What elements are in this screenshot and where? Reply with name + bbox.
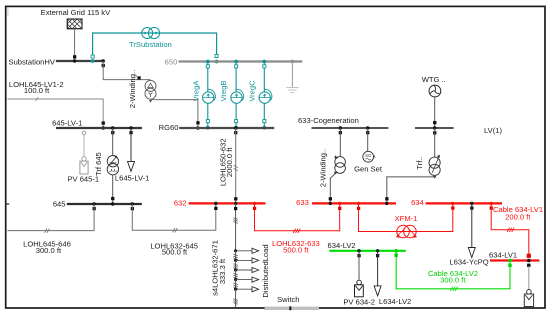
svg-text:633: 633 xyxy=(296,198,309,207)
Cable 634-LV1 label xyxy=(493,205,543,222)
svg-text:External Grid 115 kV: External Grid 115 kV xyxy=(41,8,111,17)
node XFM-1 on 633 xyxy=(357,202,360,210)
633-Cogeneration label xyxy=(298,116,359,125)
WTG label xyxy=(422,75,446,84)
svg-text:VregC: VregC xyxy=(248,80,257,102)
LOHL645-646 label xyxy=(23,239,71,255)
svg-text:633-Cogeneration: 633-Cogeneration xyxy=(298,116,359,125)
node LOHL632-645 on 645 xyxy=(131,202,134,210)
svg-text:XFM-1: XFM-1 xyxy=(395,214,418,223)
node Trf on 633 xyxy=(385,202,388,205)
bus 650 xyxy=(179,60,303,62)
svg-text:500.0 ft: 500.0 ft xyxy=(283,246,309,255)
svg-text:634: 634 xyxy=(411,198,424,207)
breaker square Cable 634-LV2 at 634-LV2 xyxy=(395,254,398,257)
svg-text:634-LV1: 634-LV1 xyxy=(489,251,517,260)
node LOHL645-LV1-2 on 645-LV-1 xyxy=(102,126,105,129)
svg-text:DistributedLoad: DistributedLoad xyxy=(261,244,270,297)
hash mark LOHL650-632 xyxy=(234,165,238,170)
node PV on 634-LV1 xyxy=(527,259,531,267)
node 2-Winding on 633 xyxy=(329,202,332,205)
wire PV 645-1 xyxy=(83,135,85,157)
line s4LOHL632-671 bottom xyxy=(233,289,237,307)
hash mark s4LOHL632-671 top xyxy=(233,218,237,223)
cable 634-LV2 (green) xyxy=(396,251,510,289)
svg-text:TrSubstation: TrSubstation xyxy=(129,40,172,49)
svg-text:RG60: RG60 xyxy=(159,123,179,132)
s4LOHL632-671 label xyxy=(211,240,227,296)
node 2-Winding on 633-Cogeneration xyxy=(339,126,342,134)
632 label xyxy=(174,199,187,208)
bus SubstationHV xyxy=(56,60,105,62)
svg-text:L645-LV-1: L645-LV-1 xyxy=(115,173,149,182)
distributed load tap 3 xyxy=(234,267,259,272)
svg-text:634-LV2: 634-LV2 xyxy=(328,241,356,250)
line LOHL645-LV1-2 xyxy=(8,99,104,128)
svg-text:650: 650 xyxy=(165,58,178,67)
633 label xyxy=(296,198,309,207)
border stub at 645 row xyxy=(6,203,9,205)
breaker square LOHL632-645 at 632 xyxy=(214,207,217,210)
svg-text:Gen Set: Gen Set xyxy=(354,165,383,174)
node 2-Winding on RG60 xyxy=(196,126,199,129)
node LOHL632-633 on 633 xyxy=(338,202,341,205)
PV 645-1 symbol xyxy=(80,157,88,174)
node external grid on bus xyxy=(73,59,76,62)
cable 634-LV1 (red) xyxy=(491,203,529,256)
svg-text:VregA: VregA xyxy=(192,80,201,102)
bus 634 xyxy=(426,202,502,204)
svg-text:2-Winding..: 2-Winding.. xyxy=(128,70,137,108)
breaker square LOHL650-632 at 632 xyxy=(234,197,237,200)
external grid symbol xyxy=(48,19,92,29)
wire 2-Winding 633 lower xyxy=(330,174,335,204)
Trf label xyxy=(415,156,424,169)
distributed load tap 5 xyxy=(234,287,259,292)
node Cable 634-LV1 on 634 xyxy=(490,202,493,210)
bus 633-Cogeneration xyxy=(312,127,389,129)
svg-text:300.0 ft: 300.0 ft xyxy=(36,246,62,255)
wind turbine generator WTG xyxy=(429,85,441,97)
line s4LOHL632-671 section 4 xyxy=(233,270,237,280)
transformer Trf 645 xyxy=(107,156,118,175)
hash mark LOHL632-633 xyxy=(293,229,300,233)
breaker square 2-Winding LV xyxy=(196,121,199,124)
load L634-LV2 xyxy=(374,251,381,296)
hash mark Cable 634-LV2 xyxy=(451,287,458,291)
wire 2-Winding transformer to RG60 xyxy=(151,99,198,128)
ground xyxy=(286,62,299,93)
DistributedLoad label xyxy=(261,244,270,297)
bus 645 xyxy=(67,203,142,205)
node XFM-1 on 634 xyxy=(451,202,454,205)
wire Trf lower to 633 xyxy=(387,176,435,204)
wire TrSubstation (teal) xyxy=(93,33,217,55)
wire Trf 645 lower xyxy=(112,175,114,204)
2-Winding substation label xyxy=(128,70,137,108)
wire Trf 645 upper xyxy=(112,128,114,156)
node LOHL632-645 on 632 xyxy=(214,202,217,205)
bus RG60 xyxy=(179,127,274,129)
line LOHL632-645 xyxy=(132,203,216,230)
line s4LOHL632-671 section 5 xyxy=(233,280,237,290)
wire PV 634-2 xyxy=(358,251,360,280)
L634-LV2 label xyxy=(379,297,411,306)
distributed load tap 1 xyxy=(234,248,259,253)
hash mark LOHL645-LV1-2 xyxy=(36,97,38,101)
breaker square on external grid wire xyxy=(73,55,76,58)
load L634-YcPQ xyxy=(468,203,475,257)
external grid label xyxy=(41,8,111,17)
650 label xyxy=(165,58,178,67)
node L645-LV-1 on 645-LV-1 xyxy=(129,126,132,134)
node LOHL650-632 on 632 xyxy=(234,202,237,205)
svg-text:SG: SG xyxy=(365,153,371,158)
RG60 label xyxy=(159,123,179,132)
634-LV2 label xyxy=(328,241,356,250)
VregA label xyxy=(192,80,201,102)
ground node on 650 xyxy=(291,60,294,63)
L645-LV-1 label xyxy=(115,173,149,182)
breaker square on 2-Winding wire xyxy=(137,76,140,79)
distributed load tap 4 xyxy=(234,277,259,282)
transformer 2-Winding (633) xyxy=(334,155,345,174)
open switch square TrSubstation HV xyxy=(91,55,94,58)
svg-text:300.0 ft: 300.0 ft xyxy=(440,276,466,285)
svg-text:VregB: VregB xyxy=(219,81,228,102)
node Trf 645 on 645-LV-1 xyxy=(111,126,114,134)
hash mark LOHL632-645 xyxy=(173,228,178,232)
634-LV1 label xyxy=(489,251,517,260)
LOHL632-645 label xyxy=(150,241,198,256)
svg-text:SubstationHV: SubstationHV xyxy=(9,57,56,66)
breaker square Cable 634-LV1 at 634-LV1 xyxy=(527,254,531,258)
svg-text:632: 632 xyxy=(174,199,187,208)
node L634-LV2 on 634-LV2 xyxy=(376,249,379,257)
node Cable 634-LV2 on 634-LV1 xyxy=(508,259,512,267)
node LOHL645-646 on 645 xyxy=(92,202,95,210)
bus WTG xyxy=(415,127,454,129)
line LOHL650-632 xyxy=(235,128,237,203)
bus 634-LV1 xyxy=(490,259,539,261)
bus 633 xyxy=(312,202,396,204)
L634-YcPQ label xyxy=(449,257,488,266)
distributed load tap 2 xyxy=(234,258,259,263)
line LOHL645-646 xyxy=(8,204,95,231)
wire SubstationHV to 2-Winding transformer xyxy=(103,61,150,80)
bus 632 xyxy=(189,202,266,204)
VregC label xyxy=(248,80,257,102)
voltage regulator VregC xyxy=(259,60,272,130)
2-Winding 633 label xyxy=(319,149,328,187)
VregB label xyxy=(219,81,228,102)
svg-text:WTG ..: WTG .. xyxy=(422,75,446,84)
bus 645-LV-1 xyxy=(56,127,142,129)
svg-text:Trf..: Trf.. xyxy=(415,156,424,169)
open switch circle PV 645-1 xyxy=(82,131,86,135)
line s4LOHL632-671 upper xyxy=(234,203,237,250)
Cable 634-LV2 label xyxy=(428,269,478,284)
open switch square TrSubstation LV xyxy=(215,54,218,57)
breaker square LOHL632-633 at 633 xyxy=(338,207,341,210)
transformer 2-Winding (substation) xyxy=(145,80,156,102)
svg-text:500.0 ft: 500.0 ft xyxy=(162,248,188,257)
svg-text:Trf 645: Trf 645 xyxy=(94,152,103,176)
PV 634-2 symbol xyxy=(355,280,364,297)
breaker square Trf 645 lower xyxy=(111,197,114,200)
634 label xyxy=(411,198,424,207)
svg-text:200.0 ft: 200.0 ft xyxy=(505,213,531,222)
645-LV-1 label xyxy=(52,119,82,128)
node Gen Set on 633-Cogeneration xyxy=(366,126,369,134)
svg-text:645: 645 xyxy=(53,199,66,208)
transformer Trf.. xyxy=(429,155,440,179)
wire Trf upper xyxy=(434,128,436,157)
Trf 645 label xyxy=(94,152,103,176)
breaker square LOHL645-LV1-2 xyxy=(102,121,105,124)
645 label xyxy=(53,199,66,208)
svg-text:2000.0 ft: 2000.0 ft xyxy=(225,147,234,177)
PV 634-2 label xyxy=(343,297,375,306)
svg-text:L634-YcPQ: L634-YcPQ xyxy=(449,257,488,266)
line s4LOHL632-671 section 3 xyxy=(233,260,237,270)
node L634-YcPQ on 634 xyxy=(470,202,473,210)
PV symbol bottom-right xyxy=(524,290,533,307)
node LOHL632-633 on 632 xyxy=(253,202,256,210)
Switch label xyxy=(277,295,299,304)
svg-text:LV(1): LV(1) xyxy=(484,126,502,135)
TrSubstation label xyxy=(129,40,172,49)
SubstationHV label xyxy=(9,57,56,66)
line LOHL632-633 (red) xyxy=(255,203,340,230)
node PV 634-2 on 634-LV2 xyxy=(357,249,360,257)
LV(1) label xyxy=(484,126,502,135)
PV 645-1 label xyxy=(67,175,99,184)
breaker square XFM-1 at 634 xyxy=(451,206,454,209)
wire Gen Set xyxy=(367,128,369,152)
node Cable 634-LV2 on 634-LV2 xyxy=(394,249,398,253)
Gen Set label xyxy=(354,165,383,174)
svg-text:2-Winding..: 2-Winding.. xyxy=(319,149,328,187)
svg-text:L634-LV2: L634-LV2 xyxy=(379,297,411,306)
node TrSubstation HV (teal) xyxy=(91,59,95,63)
svg-text:Switch: Switch xyxy=(277,295,299,304)
voltage regulator VregB xyxy=(231,60,244,130)
wire XFM-1 left (red) xyxy=(359,203,453,231)
breaker square Trf at 633 xyxy=(385,197,388,200)
wire WTG to bus xyxy=(434,97,436,128)
node WTG bus xyxy=(433,126,436,134)
node LOHL650-632 on RG60 xyxy=(234,126,237,134)
LOHL650-632 label xyxy=(218,138,234,186)
node TrSubstation LV on 650 xyxy=(215,60,219,64)
hash mark LOHL645-646 xyxy=(45,228,50,232)
generator Gen Set xyxy=(363,151,376,162)
node Trf 645 on 645 xyxy=(111,202,114,205)
breaker square 2-Winding at 633 xyxy=(329,197,332,200)
switch bus bar at bottom xyxy=(265,306,319,310)
LOHL632-633 label xyxy=(272,239,320,255)
line s4LOHL632-671 section 2 xyxy=(233,251,237,261)
wire external grid to SubstationHV xyxy=(74,29,76,61)
transformer TrSubstation xyxy=(142,27,160,38)
hash mark Cable 634-LV1 xyxy=(507,228,514,232)
breaker square WTG xyxy=(433,121,436,124)
transformer XFM-1 xyxy=(396,225,417,238)
wire PV bottom-right xyxy=(528,266,530,290)
wire 2-Winding 633 upper xyxy=(339,128,341,157)
bus 634-LV2 xyxy=(329,250,406,252)
LOHL645-LV1-2 label xyxy=(9,80,64,95)
svg-text:645-LV-1: 645-LV-1 xyxy=(52,119,82,128)
node substation transformer HV xyxy=(102,59,105,67)
XFM-1 label xyxy=(395,214,418,223)
voltage regulator VregA xyxy=(203,60,216,130)
svg-text:333.3 ft: 333.3 ft xyxy=(218,258,227,284)
svg-text:PV 634-2: PV 634-2 xyxy=(343,297,375,306)
load L645-LV-1 xyxy=(128,128,135,171)
svg-text:100.0 ft: 100.0 ft xyxy=(24,86,50,95)
